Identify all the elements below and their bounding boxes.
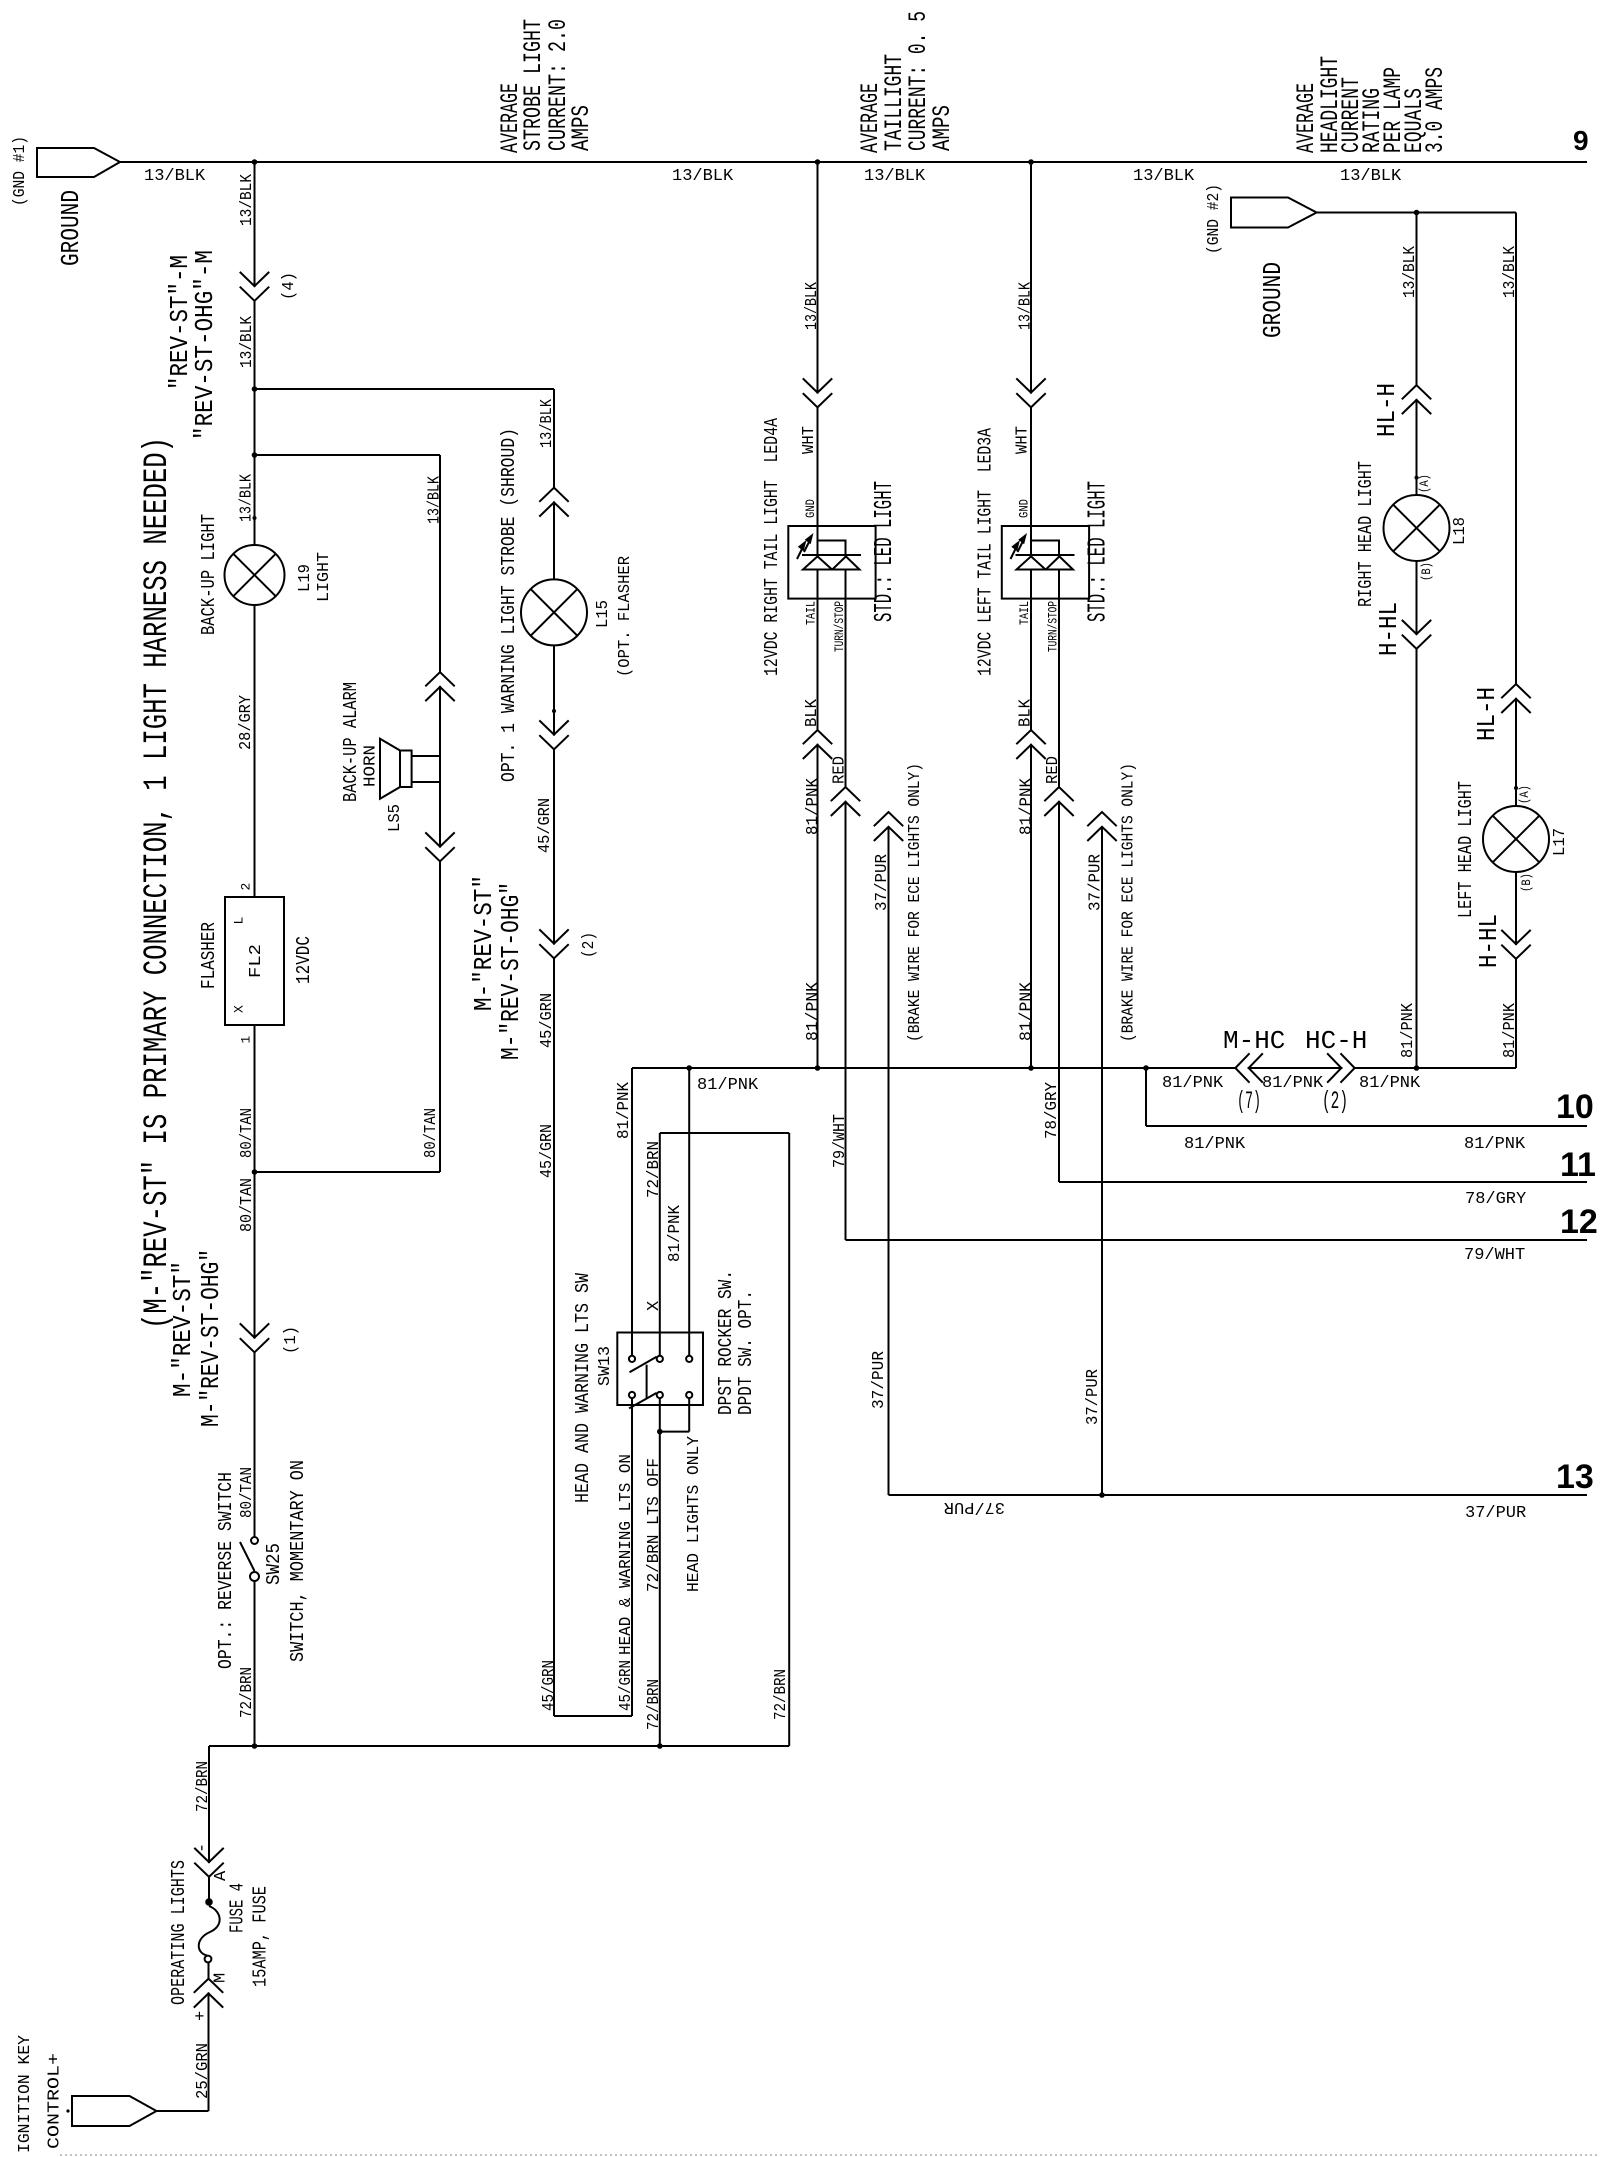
svg-text:80/TAN: 80/TAN: [238, 1178, 257, 1232]
ignition key source arrow: [72, 2096, 157, 2126]
svg-text:81/PNK: 81/PNK: [615, 1081, 634, 1139]
svg-text:81/PNK: 81/PNK: [1184, 1135, 1246, 1154]
svg-text:13/BLK: 13/BLK: [426, 475, 445, 524]
svg-text:SWITCH, MOMENTARY ON: SWITCH, MOMENTARY ON: [287, 1460, 309, 1662]
svg-text:12VDC LEFT TAIL LIGHT LED3A: 12VDC LEFT TAIL LIGHT LED3A: [975, 428, 997, 676]
svg-text:"REV-ST-OHG"-M: "REV-ST-OHG"-M: [190, 250, 220, 440]
connector chevron (1): [240, 1323, 269, 1352]
svg-text:FUSE 4: FUSE 4: [227, 1883, 249, 1933]
connector chevron (4): [240, 272, 269, 301]
wire fuse to ignition arrow: [208, 1963, 210, 2112]
svg-text:TAIL: TAIL: [804, 601, 819, 625]
wire line 13 37/PUR: [889, 1494, 1588, 1496]
svg-text:37/PUR: 37/PUR: [1465, 1504, 1526, 1523]
dot pin A L17: [1514, 786, 1518, 790]
bottom margin dotted rule: [60, 2154, 1600, 2156]
svg-text:37/PUR: 37/PUR: [944, 1497, 1005, 1516]
svg-text:80/TAN: 80/TAN: [422, 1108, 441, 1158]
connector chevron below fuse: [194, 1979, 223, 2008]
ground symbol GND#1: [37, 148, 120, 177]
svg-text:WHT: WHT: [800, 426, 819, 454]
wire to ignition key: [157, 2110, 209, 2112]
wire 13/BLK to L17: [1515, 213, 1517, 807]
svg-text:13/BLK: 13/BLK: [803, 281, 822, 330]
svg-text:OPT. 1 WARNING LIGHT STROBE (S: OPT. 1 WARNING LIGHT STROBE (SHROUD): [498, 428, 520, 782]
wire SW13 pole1 bottom 45/GRN: [631, 1398, 633, 1716]
svg-text:81/PNK: 81/PNK: [666, 1204, 685, 1262]
svg-text:13/BLK: 13/BLK: [538, 398, 557, 448]
svg-text:81/PNK: 81/PNK: [1018, 981, 1037, 1041]
wire bottom 72/BRN bus: [209, 1745, 789, 1747]
svg-text:1: 1: [239, 1036, 254, 1044]
junction top bus / left drop: [252, 159, 258, 165]
svg-text:L15: L15: [594, 600, 613, 628]
svg-text:81/PNK: 81/PNK: [1399, 1002, 1418, 1058]
svg-text:72/BRN: 72/BRN: [772, 1669, 791, 1720]
svg-text:78/GRY: 78/GRY: [1043, 1082, 1062, 1139]
wire 13/BLK to L18: [1416, 213, 1418, 496]
back-up alarm horn LS5: [380, 739, 440, 799]
wire 81/PNK to SW13 pole1 top: [631, 1068, 633, 1355]
wire SW13 pole-mid bottom 72/BRN: [659, 1398, 661, 1746]
svg-text:13/BLK: 13/BLK: [238, 315, 257, 368]
svg-text:AMPS: AMPS: [928, 105, 957, 151]
junction GND#2 / L18 drop: [1414, 210, 1420, 216]
svg-text:80/TAN: 80/TAN: [238, 1108, 257, 1158]
wire 81/PNK bus: [632, 1067, 1516, 1069]
svg-text:80/TAN: 80/TAN: [238, 1467, 257, 1518]
svg-text:BACK-UP ALARM: BACK-UP ALARM: [340, 682, 362, 802]
svg-text:13/BLK: 13/BLK: [1017, 281, 1036, 330]
wire L17 to 81/PNK bus: [1515, 872, 1517, 1068]
svg-text:RIGHT HEAD LIGHT: RIGHT HEAD LIGHT: [1355, 461, 1377, 607]
svg-text:HEAD LIGHTS ONLY: HEAD LIGHTS ONLY: [685, 1436, 704, 1592]
svg-text:L: L: [232, 917, 247, 925]
LED light module LED3A: [1002, 526, 1089, 599]
svg-text:13/BLK: 13/BLK: [238, 173, 257, 226]
wire branch to strobe L15: [255, 388, 555, 390]
wire 45/GRN strobe down: [553, 645, 555, 1716]
svg-text:FLASHER: FLASHER: [198, 922, 220, 989]
svg-text:OPERATING LIGHTS: OPERATING LIGHTS: [168, 1860, 190, 2005]
svg-text:(2): (2): [580, 932, 599, 958]
junction to strobe branch: [252, 386, 258, 392]
svg-text:L18: L18: [1451, 517, 1470, 545]
lamp L15 warning strobe: [521, 579, 587, 645]
wire branch to back-up alarm: [255, 454, 441, 456]
svg-text:A: A: [212, 1870, 231, 1881]
fuse FUSE4: [205, 1898, 213, 1906]
wire dot above L19: [253, 516, 257, 520]
svg-text:M-"REV-ST-OHG": M-"REV-ST-OHG": [496, 882, 526, 1060]
SW13 link bar: [646, 1365, 648, 1399]
svg-text:L17: L17: [1551, 828, 1570, 856]
svg-text:25/GRN: 25/GRN: [194, 2043, 213, 2099]
svg-text:37/PUR: 37/PUR: [1087, 854, 1106, 911]
junction SW25 to bottom bus: [252, 1743, 258, 1749]
wire 45/GRN over to switch SW13: [554, 1715, 632, 1717]
connector chevron above fuse: [194, 1848, 223, 1877]
svg-text:(1): (1): [282, 1326, 301, 1354]
svg-text:LS5: LS5: [386, 804, 405, 832]
flasher FL2 box: [225, 897, 284, 1025]
svg-text:IGNITION KEY: IGNITION KEY: [16, 2035, 35, 2153]
svg-text:37/PUR: 37/PUR: [873, 854, 892, 911]
junction LED4A tail: [815, 1065, 821, 1071]
svg-text:HC-H: HC-H: [1305, 1026, 1367, 1056]
svg-text:AMPS: AMPS: [567, 105, 596, 151]
svg-text:2: 2: [239, 883, 254, 891]
svg-text:72/BRN: 72/BRN: [645, 1679, 664, 1730]
svg-text:81/PNK: 81/PNK: [1501, 1002, 1520, 1058]
svg-text:M-"REV-ST": M-"REV-ST": [469, 875, 499, 1011]
SW13 contact: [629, 1356, 635, 1362]
svg-text:12: 12: [1560, 1203, 1598, 1241]
svg-text:CONTROL+: CONTROL+: [46, 2053, 65, 2149]
svg-text:45/GRN: 45/GRN: [536, 798, 555, 853]
switch SW25 momentary: [251, 1537, 258, 1544]
svg-text:(BRAKE WIRE FOR ECE LIGHTS ONL: (BRAKE WIRE FOR ECE LIGHTS ONLY): [906, 763, 925, 1042]
svg-text:HORN: HORN: [362, 745, 381, 787]
wire 13/BLK to LED3A: [1030, 162, 1032, 526]
svg-text:M-"REV-ST": M-"REV-ST": [168, 1261, 198, 1397]
svg-text:HL-H: HL-H: [1472, 687, 1502, 741]
svg-text:13: 13: [1556, 1458, 1594, 1496]
svg-text:L19: L19: [296, 564, 315, 592]
SW13 lever lower: [629, 1393, 657, 1409]
svg-text:10: 10: [1556, 1088, 1594, 1126]
junction bus LED4A: [815, 159, 821, 165]
mark dot left of arrow: [66, 2109, 69, 2112]
SW25 lever: [240, 1542, 255, 1571]
wire line 10 81/PNK: [1146, 1125, 1587, 1127]
lamp L19 back-up light: [225, 545, 285, 605]
svg-text:H-HL: H-HL: [1474, 914, 1504, 968]
connector chevron HL-H (R): [1402, 385, 1431, 414]
SW13 contact: [629, 1392, 635, 1398]
switch SW13 box: [617, 1333, 703, 1406]
svg-text:(OPT. FLASHER: (OPT. FLASHER: [616, 556, 635, 677]
connector chevron TURN/STOP: [831, 787, 860, 816]
wire 72/BRN loop top: [660, 1132, 789, 1134]
junction headlight R: [1414, 1065, 1420, 1071]
svg-text:BLK: BLK: [803, 698, 822, 727]
svg-text:SW13: SW13: [596, 1346, 615, 1386]
svg-text:81/PNK: 81/PNK: [1162, 1074, 1224, 1093]
connector chevron HL-H (L): [1501, 684, 1530, 713]
wire 72/BRN to SW13 pole-mid top: [659, 1133, 661, 1355]
wire TAIL 81/PNK down: [817, 599, 819, 1068]
svg-text:BLK: BLK: [1017, 698, 1036, 727]
wire dot below L15: [552, 709, 556, 713]
svg-text:LEFT HEAD LIGHT: LEFT HEAD LIGHT: [1455, 781, 1477, 918]
svg-text:(7): (7): [1237, 1087, 1261, 1116]
svg-text:+: +: [192, 2011, 211, 2021]
connector chevron H-HL (L): [1501, 930, 1530, 959]
connector chevron horn lower: [425, 832, 454, 861]
connector chevron 37/PUR: [874, 812, 903, 841]
svg-text:13/BLK: 13/BLK: [1133, 167, 1195, 186]
wire 13/BLK-80/TAN horn drop: [439, 455, 441, 1172]
junction bus LED3A: [1028, 159, 1034, 165]
svg-text:45/GRN: 45/GRN: [617, 1660, 636, 1711]
wire line 12 79/WHT: [846, 1239, 1588, 1241]
junction pole-mid to bus: [657, 1743, 663, 1749]
connector chevron M-HC: [1235, 1053, 1263, 1082]
wire 13/BLK to LED4A: [817, 162, 819, 526]
svg-text:72/BRN LTS OFF: 72/BRN LTS OFF: [645, 1458, 664, 1592]
wire 81/PNK to SW13 pole3 top: [688, 1068, 690, 1355]
svg-text:81/PNK: 81/PNK: [804, 981, 823, 1041]
svg-text:DPDT SW. OPT.: DPDT SW. OPT.: [735, 1290, 757, 1415]
connector chevron above L15: [539, 488, 568, 517]
svg-text:GND: GND: [1017, 499, 1032, 518]
svg-text:SW25: SW25: [263, 1543, 285, 1585]
svg-text:72/BRN: 72/BRN: [194, 1761, 213, 1812]
svg-text:12VDC RIGHT TAIL LIGHT LED4A: 12VDC RIGHT TAIL LIGHT LED4A: [761, 418, 783, 676]
svg-text:X: X: [232, 1005, 247, 1013]
wire 13/BLK down to L19: [254, 162, 256, 545]
svg-text:(4): (4): [280, 272, 299, 300]
wire 80/TAN branch to horn drop: [255, 1171, 441, 1173]
svg-text:(M-"REV-ST" IS PRIMARY CONNECT: (M-"REV-ST" IS PRIMARY CONNECTION, 1 LIG…: [139, 437, 177, 1329]
wire TURN/STOP 78/GRY to line11: [1058, 599, 1060, 1182]
SW13 lever upper: [630, 1357, 657, 1373]
wire top bus 13/BLK: [120, 161, 1587, 163]
svg-text:TAIL: TAIL: [1017, 601, 1032, 625]
svg-text:37/PUR: 37/PUR: [870, 1351, 889, 1409]
wire line 11 78/GRY: [1059, 1181, 1587, 1183]
wire SW13 pole3 bottom stub: [688, 1398, 690, 1432]
wire GND#2 bus: [1317, 212, 1516, 214]
svg-text:DPST ROCKER SW.: DPST ROCKER SW.: [715, 1270, 737, 1415]
svg-text:(A): (A): [1517, 785, 1532, 804]
connector chevron LED4A: [803, 378, 832, 407]
wire 72/BRN below SW25: [254, 1581, 256, 1746]
junction LED3A tail: [1028, 1065, 1034, 1071]
svg-text:(GND #2): (GND #2): [1205, 184, 1224, 254]
svg-text:(GND #1): (GND #1): [11, 136, 30, 206]
wire 72/BRN loop right side: [788, 1133, 790, 1746]
LED light module LED4A: [788, 526, 875, 599]
svg-text:13/BLK: 13/BLK: [864, 167, 926, 186]
svg-text:RED: RED: [1044, 756, 1063, 784]
SW13 contact: [686, 1392, 692, 1398]
wire 37/PUR brake to line13: [888, 827, 890, 1495]
svg-text:45/GRN: 45/GRN: [538, 993, 557, 1048]
svg-text:M-"REV-ST-OHG": M-"REV-ST-OHG": [196, 1249, 226, 1427]
svg-text:12VDC: 12VDC: [293, 936, 315, 984]
svg-text:M-HC: M-HC: [1223, 1026, 1285, 1056]
svg-text:M: M: [212, 1973, 231, 1983]
connector chevron H-HL (R): [1402, 620, 1431, 649]
junction line10 drop: [1143, 1065, 1149, 1071]
svg-text:GROUND: GROUND: [1258, 262, 1288, 338]
connector chevron TAIL: [803, 730, 832, 759]
connector chevron LED3A: [1016, 378, 1045, 407]
connector chevron TURN/STOP (3A): [1044, 787, 1073, 816]
svg-text:(B): (B): [1519, 873, 1534, 892]
junction pole3 drop: [686, 1065, 692, 1071]
svg-text:45/GRN: 45/GRN: [540, 1660, 559, 1711]
wire TAIL 81/PNK down (3A): [1030, 599, 1032, 1068]
connector chevron horn upper: [425, 672, 454, 701]
connector chevron 37/PUR (3A): [1087, 812, 1116, 841]
junction 37/PUR line13: [1099, 1492, 1105, 1498]
svg-text:GROUND: GROUND: [56, 190, 86, 266]
SW13 contact: [657, 1392, 663, 1398]
wire L19 to flasher FL2 pin2: [254, 605, 256, 897]
svg-text:81/PNK: 81/PNK: [697, 1076, 759, 1095]
dot pin A L18: [1415, 476, 1419, 480]
lamp L17 left head light: [1483, 806, 1549, 872]
SW13 contact: [657, 1356, 663, 1362]
svg-text:13/BLK: 13/BLK: [238, 473, 257, 522]
svg-text:BACK-UP LIGHT: BACK-UP LIGHT: [198, 514, 220, 635]
connector chevron HC-H: [1327, 1053, 1355, 1082]
svg-text:79/WHT: 79/WHT: [1464, 1246, 1525, 1265]
svg-text:13/BLK: 13/BLK: [144, 167, 206, 186]
connector chevron TAIL (3A): [1016, 730, 1045, 759]
svg-text:81/PNK: 81/PNK: [1018, 777, 1037, 835]
lamp L18 right head light: [1384, 495, 1450, 561]
svg-text:(2): (2): [1322, 1087, 1348, 1116]
junction to horn branch: [252, 452, 258, 458]
svg-text:13/BLK: 13/BLK: [1501, 245, 1520, 298]
svg-text:(A): (A): [1417, 474, 1432, 493]
wire down to fuse: [208, 1746, 210, 1899]
svg-text:81/PNK: 81/PNK: [1359, 1074, 1421, 1093]
svg-text:3.0 AMPS: 3.0 AMPS: [1421, 67, 1450, 153]
svg-text:STD.: LED LIGHT: STD.: LED LIGHT: [1083, 481, 1113, 622]
SW13 contact: [686, 1356, 692, 1362]
svg-text:11: 11: [1560, 1146, 1596, 1184]
svg-text:72/BRN: 72/BRN: [645, 1141, 664, 1198]
svg-text:OPT.: REVERSE SWITCH: OPT.: REVERSE SWITCH: [215, 1472, 237, 1669]
svg-text:79/WHT: 79/WHT: [831, 1114, 850, 1168]
wire FL2 pin1 down 80/TAN: [254, 1025, 256, 1537]
svg-text:-: -: [194, 1843, 213, 1853]
svg-text:45/GRN: 45/GRN: [538, 1124, 557, 1178]
svg-text:(BRAKE WIRE FOR ECE LIGHTS ONL: (BRAKE WIRE FOR ECE LIGHTS ONLY): [1120, 763, 1139, 1042]
svg-text:81/PNK: 81/PNK: [804, 777, 823, 835]
svg-text:(B): (B): [1419, 562, 1434, 581]
svg-text:37/PUR: 37/PUR: [1084, 1369, 1103, 1425]
ground symbol GND#2: [1231, 198, 1317, 228]
svg-text:HL-H: HL-H: [1372, 383, 1402, 437]
junction pole3 tie: [657, 1429, 663, 1435]
svg-text:X: X: [645, 1301, 664, 1311]
svg-text:78/GRY: 78/GRY: [1465, 1190, 1526, 1209]
wire TURN/STOP 79/WHT down to line12: [845, 599, 847, 1240]
svg-text:28/GRY: 28/GRY: [237, 695, 256, 750]
svg-text:FL2: FL2: [247, 944, 266, 978]
wire 37/PUR brake 2 to line13: [1101, 827, 1103, 1495]
svg-text:13/BLK: 13/BLK: [672, 167, 734, 186]
connector chevron below L15: [539, 720, 568, 749]
wire L18 to 81/PNK bus: [1416, 561, 1418, 1068]
wire drop to line 10: [1145, 1068, 1147, 1126]
connector chevron (2): [539, 929, 568, 958]
svg-text:81/PNK: 81/PNK: [1262, 1074, 1324, 1093]
svg-text:13/BLK: 13/BLK: [1340, 167, 1402, 186]
junction 80/TAN branch: [252, 1169, 258, 1175]
wire pole3 tie: [660, 1431, 689, 1433]
svg-text:RED: RED: [831, 756, 850, 784]
svg-text:15AMP, FUSE: 15AMP, FUSE: [250, 1886, 272, 1987]
wire 13/BLK to L15: [553, 389, 555, 580]
svg-text:81/PNK: 81/PNK: [1464, 1135, 1526, 1154]
svg-text:WHT: WHT: [1014, 426, 1033, 454]
svg-text:13/BLK: 13/BLK: [1401, 245, 1420, 298]
svg-text:72/BRN: 72/BRN: [238, 1667, 257, 1718]
svg-text:H-HL: H-HL: [1374, 602, 1404, 656]
svg-text:HEAD & WARNING LTS ON: HEAD & WARNING LTS ON: [617, 1454, 636, 1655]
svg-text:LIGHT: LIGHT: [315, 552, 334, 602]
svg-text:9: 9: [1573, 125, 1589, 156]
svg-text:HEAD AND WARNING LTS SW: HEAD AND WARNING LTS SW: [572, 1273, 594, 1503]
svg-text:GND: GND: [803, 499, 818, 518]
svg-text:STD.: LED LIGHT: STD.: LED LIGHT: [869, 481, 899, 622]
